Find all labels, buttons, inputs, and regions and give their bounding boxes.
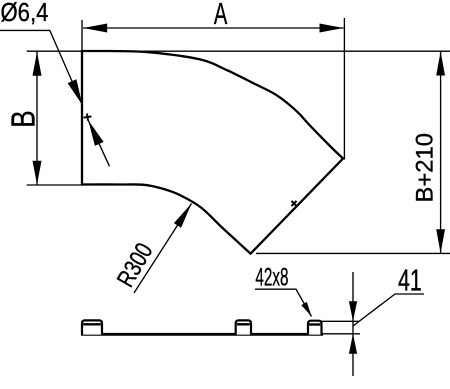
svg-text:Ø6,4: Ø6,4 bbox=[1, 0, 49, 28]
svg-text:A: A bbox=[214, 0, 228, 31]
svg-text:B+210: B+210 bbox=[411, 133, 438, 202]
svg-text:42x8: 42x8 bbox=[255, 264, 288, 292]
svg-text:B: B bbox=[5, 110, 42, 127]
svg-text:41: 41 bbox=[398, 263, 422, 298]
